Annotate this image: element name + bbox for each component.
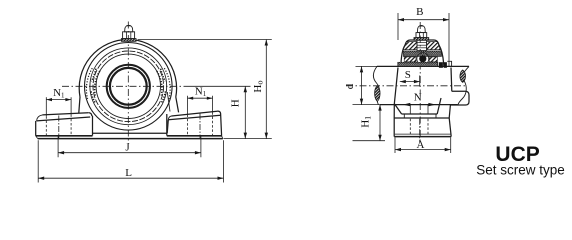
svg-text:N: N bbox=[414, 91, 422, 103]
svg-text:B: B bbox=[416, 6, 423, 18]
svg-text:S: S bbox=[405, 69, 411, 81]
svg-text:d: d bbox=[344, 83, 356, 89]
svg-text:J: J bbox=[125, 142, 130, 154]
svg-text:H1: H1 bbox=[360, 116, 373, 128]
svg-text:Set screw type: Set screw type bbox=[476, 163, 565, 178]
svg-text:L: L bbox=[125, 167, 132, 179]
svg-text:H: H bbox=[230, 99, 242, 107]
svg-text:A: A bbox=[417, 139, 425, 151]
svg-text:Ho: Ho bbox=[252, 80, 265, 92]
svg-text:N1: N1 bbox=[195, 86, 207, 99]
svg-text:N1: N1 bbox=[53, 87, 65, 100]
